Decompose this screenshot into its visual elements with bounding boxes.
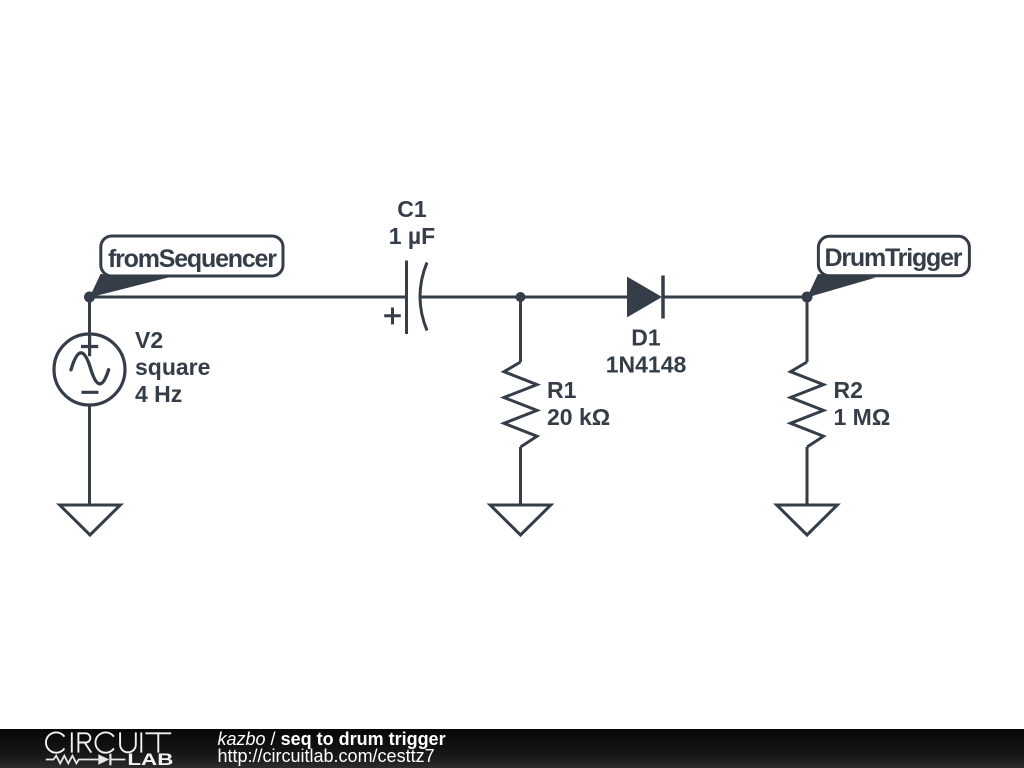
I	[140, 732, 142, 752]
svg-text:R2: R2	[834, 377, 863, 403]
voltage source V2	[54, 334, 125, 405]
wire: node B to D1 anode	[521, 296, 629, 299]
footer bar	[0, 729, 1024, 768]
node B	[516, 292, 526, 302]
svg-text:4 Hz: 4 Hz	[135, 381, 182, 407]
svg-text:1N4148: 1N4148	[606, 352, 687, 378]
wire: node A down to V2 top	[88, 297, 91, 334]
svg-text:20 kΩ: 20 kΩ	[547, 404, 610, 430]
flag fromSequencer tail	[90, 274, 169, 298]
svg-text:V2: V2	[135, 327, 163, 353]
U	[120, 732, 136, 752]
svg-text:DrumTrigger: DrumTrigger	[825, 244, 963, 272]
node A	[84, 292, 95, 303]
ground (R1)	[490, 505, 551, 535]
T	[145, 732, 171, 734]
wire: C1 right plate to node B	[421, 296, 521, 299]
diode D1	[628, 276, 664, 319]
svg-text:http://circuitlab.com/cesttz7: http://circuitlab.com/cesttz7	[218, 746, 435, 766]
CircuitLab logo and credit	[0, 729, 1024, 768]
R	[77, 732, 79, 752]
svg-text:1 µF: 1 µF	[389, 223, 435, 249]
wire: R1 bottom to ground	[519, 447, 522, 505]
wire: R2 bottom to ground	[806, 447, 809, 505]
logo diode symbol	[98, 754, 109, 764]
resistor R2	[791, 362, 824, 447]
svg-text:R1: R1	[547, 377, 577, 403]
flag DrumTrigger tail	[807, 274, 876, 298]
svg-text:LAB: LAB	[127, 751, 173, 768]
logo wordmark CIRCUIT (thin stroked letters)	[46, 732, 171, 752]
wire: node C down to R2 top	[806, 297, 809, 362]
svg-text:fromSequencer: fromSequencer	[108, 245, 277, 273]
ground (R2)	[777, 505, 838, 535]
svg-text:C1: C1	[397, 196, 427, 222]
svg-text:D1: D1	[631, 325, 661, 351]
wire: node B down to R1 top	[519, 297, 522, 362]
svg-text:1 MΩ: 1 MΩ	[834, 404, 891, 430]
C	[95, 732, 113, 752]
resistor R1	[504, 362, 537, 447]
C	[46, 732, 64, 752]
wire: node A to C1 left plate	[90, 296, 406, 299]
logo resistor symbol	[46, 756, 99, 764]
flag DrumTrigger box	[818, 236, 969, 275]
node C	[802, 292, 813, 303]
I	[71, 732, 73, 752]
wire: D1 cathode to node C	[663, 296, 807, 299]
capacitor C1	[384, 261, 427, 335]
flag fromSequencer box	[101, 236, 283, 276]
wire: V2 bottom to ground	[88, 405, 91, 505]
ground (V2)	[60, 505, 121, 535]
svg-text:square: square	[135, 354, 210, 380]
